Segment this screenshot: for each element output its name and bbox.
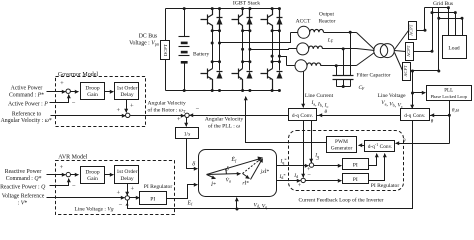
voltage sensor ACPT 1 <box>409 22 417 40</box>
svg-text:LF: LF <box>327 38 334 44</box>
svg-text:−: − <box>315 157 319 164</box>
wire: grid bus line c <box>438 8 440 71</box>
svg-text:1/s: 1/s <box>184 131 191 137</box>
wire: leg 1 center column <box>212 31 214 69</box>
AVR model dashed box <box>56 161 175 215</box>
wire: sum to PI <box>130 197 140 199</box>
wire: phase 2 output tap <box>250 49 289 50</box>
svg-text:Droop: Droop <box>85 86 99 92</box>
svg-text:ACPT: ACPT <box>408 24 413 36</box>
wire: theta to dq inverse conv <box>396 143 450 145</box>
svg-text:Angular Velocity : ω*: Angular Velocity : ω* <box>1 118 52 124</box>
wire: omega ref to PLL comparison <box>130 115 185 117</box>
summing junction: Id error <box>301 178 305 182</box>
svg-text:ACPT: ACPT <box>406 45 411 57</box>
svg-text:−: − <box>72 100 76 107</box>
wire: P feedback <box>50 95 69 103</box>
svg-text:+: + <box>116 107 120 114</box>
node: lower collector junction leg 2 <box>243 61 250 63</box>
svg-text:Delay: Delay <box>120 176 134 182</box>
svg-text:Reactive Power: Reactive Power <box>5 169 42 175</box>
vector: jxI* <box>251 159 263 180</box>
block: PI (d axis) <box>343 174 369 184</box>
wire: grid bus line b <box>432 8 434 52</box>
svg-text:+: + <box>177 116 181 123</box>
wire: omega line from PLL to speed summing <box>191 115 450 117</box>
PLL block <box>427 86 472 101</box>
summing junction: Iq error <box>309 163 313 167</box>
node: lower collector junction leg 3 <box>273 61 280 63</box>
svg-text:−: − <box>307 172 311 179</box>
wire: Id* reference from phasor block <box>277 180 301 182</box>
wire: theta into left d-q conv <box>319 115 341 117</box>
diode: upper freewheel leg 3 <box>277 9 283 31</box>
svg-text:Line Voltage : Vg: Line Voltage : Vg <box>74 206 113 212</box>
inductor: output reactor phase 3 <box>307 63 321 66</box>
current transformer ACCT 1 <box>298 26 310 38</box>
transistor: upper IGBT leg 2 <box>232 9 243 31</box>
wire: Ef into phasor block <box>167 185 198 199</box>
wire: Id error to PI <box>306 180 342 182</box>
wire: droop to delay <box>105 91 114 93</box>
svg-text:+: + <box>60 164 64 171</box>
wire: upper midpoint connector leg 3 <box>273 30 280 32</box>
svg-text:Grid Bus: Grid Bus <box>433 1 453 7</box>
angle arc: delta <box>225 169 228 174</box>
voltage sensor ACPT 3 <box>403 63 411 81</box>
wire: DC bus positive rail <box>166 8 280 10</box>
svg-text:+: + <box>60 80 64 87</box>
svg-text:Reactor: Reactor <box>319 18 336 24</box>
svg-text:Current Feedback Loop of the I: Current Feedback Loop of the Inverter <box>298 196 383 203</box>
wire: sum to droop gain <box>71 91 79 93</box>
svg-text:ACPT: ACPT <box>403 65 408 77</box>
wire: phase 3 to grid bus <box>411 70 439 72</box>
summing junction: speed error <box>185 113 189 117</box>
wire: delta angle into phasor block <box>187 139 198 169</box>
wire: fan-in to transformer <box>357 33 375 66</box>
svg-text:+: + <box>298 182 302 189</box>
svg-text:d-q Conv.: d-q Conv. <box>292 113 313 119</box>
diode: upper freewheel leg 1 <box>217 9 223 31</box>
diode: upper freewheel leg 2 <box>247 9 253 31</box>
wire: grid bus line a <box>424 8 426 31</box>
svg-text:Voltage : Vpn: Voltage : Vpn <box>129 40 160 46</box>
block: 1st Order Delay (governor) <box>115 83 139 100</box>
svg-text:PI: PI <box>353 177 358 183</box>
block: Droop Gain (AVR) <box>81 167 105 184</box>
svg-text:−: − <box>118 202 122 209</box>
wire: phase 1 to grid bus <box>417 30 425 32</box>
wire: tap to PLL <box>411 92 414 95</box>
wire: phase 3 to transformer <box>321 65 357 67</box>
svg-text:+: + <box>116 190 120 197</box>
svg-text:d-q Conv.: d-q Conv. <box>404 113 425 119</box>
wire: governor output down to speed ref sum <box>126 100 128 113</box>
vector: rI* <box>243 174 250 179</box>
wire: omega into summing junction <box>190 115 197 117</box>
wire: gate drive from PWM generator to stack <box>246 97 327 143</box>
svg-text:jxİ*: jxİ* <box>260 168 270 175</box>
wire: into ACCT 2 <box>289 48 297 50</box>
wire: phase 1 output tap <box>220 33 291 43</box>
block: 1/s integrator <box>176 128 199 139</box>
svg-text:IGBT Stack: IGBT Stack <box>233 1 260 7</box>
transistor: lower IGBT leg 3 <box>261 69 273 91</box>
node: battery - on rail <box>183 89 186 92</box>
svg-text:of the Rotor : ωT: of the Rotor : ωT <box>148 107 186 114</box>
svg-text:−: − <box>195 106 199 113</box>
wire: Iq from d-q conv <box>311 121 313 163</box>
wire: line current measurement tap <box>303 72 305 108</box>
vector: V <box>207 174 241 175</box>
block: 1st Order Delay (AVR) <box>115 166 139 184</box>
block: phasor diagram <box>199 150 277 197</box>
svg-text:Delay: Delay <box>120 92 134 98</box>
current transformer ACCT 3 <box>295 60 307 72</box>
svg-text:+: + <box>130 102 134 109</box>
svg-text:Command : Q*: Command : Q* <box>6 176 42 182</box>
svg-text:θ,ω: θ,ω <box>452 108 460 113</box>
svg-text:CF: CF <box>359 85 366 91</box>
svg-text:DCPT: DCPT <box>163 44 168 56</box>
wire: DC bus negative rail <box>166 90 280 92</box>
wire: into ACCT 3 <box>287 65 295 67</box>
wire: P* command into sum <box>47 91 66 93</box>
block: d-q conversion (voltage) <box>401 109 430 121</box>
wire: leg 3 center column <box>272 31 274 69</box>
svg-text:Generator: Generator <box>331 146 353 152</box>
wire: phase 2 to grid bus <box>414 51 433 53</box>
wire: theta into right d-q conv <box>431 115 441 117</box>
node: Vd Vq into phasor block <box>236 208 239 211</box>
inductor: output reactor phase 1 <box>310 29 324 32</box>
governor model dashed box <box>56 77 146 127</box>
svg-text:d-q-1 Conv.: d-q-1 Conv. <box>368 142 393 150</box>
block: PWM Generator <box>327 137 357 153</box>
voltage sensor ACPT 2 <box>406 43 414 61</box>
current transformer ACCT 2 <box>297 43 309 55</box>
wire: capacitor common bus <box>337 86 351 88</box>
wire: omega ref line <box>51 115 126 117</box>
battery <box>184 9 186 37</box>
svg-text:−: − <box>72 182 76 189</box>
load <box>443 36 467 59</box>
wire: phase 3 output tap <box>280 57 287 66</box>
wire: droop to delay (AVR) <box>105 174 114 176</box>
svg-text:PWM: PWM <box>335 139 348 145</box>
wire: Vd Vq feedback line <box>128 121 413 209</box>
wire: cap 3 stub <box>336 66 338 76</box>
node: lower collector junction leg 1 <box>213 61 220 63</box>
svg-text:ACCT: ACCT <box>296 19 311 25</box>
wire: PI d output up to dq inverse <box>369 154 385 181</box>
wire: leg 3 diode column <box>279 31 281 71</box>
wire: AVR chain down to voltage sum <box>127 184 129 196</box>
block: d-q conversion (current) <box>289 109 317 121</box>
wire: leg 2 diode column <box>249 31 251 71</box>
svg-text:Load: Load <box>448 46 460 52</box>
construction line (dashed) <box>243 158 263 174</box>
svg-text:Command : P*: Command : P* <box>9 92 44 98</box>
svg-text:1st Order: 1st Order <box>117 169 138 175</box>
svg-text:Angular Velocity: Angular Velocity <box>205 117 243 123</box>
summing junction: AVR power error <box>66 172 70 176</box>
svg-text:+: + <box>130 186 134 193</box>
inductor: output reactor phase 2 <box>309 46 323 49</box>
svg-text:δ: δ <box>192 161 195 168</box>
svg-text:PI Regulator: PI Regulator <box>371 183 400 189</box>
svg-text:δ: δ <box>226 167 229 173</box>
svg-text:+: + <box>307 166 311 173</box>
transistor: lower IGBT leg 2 <box>232 69 243 91</box>
wire: fan-out from transformer <box>395 31 409 71</box>
svg-text:Output: Output <box>319 11 334 17</box>
svg-text:1st Order: 1st Order <box>117 85 138 91</box>
svg-text:DC Bus: DC Bus <box>139 33 158 39</box>
svg-text:Angular Velocity: Angular Velocity <box>148 101 186 107</box>
svg-text:Line Current: Line Current <box>305 93 334 99</box>
svg-text:Line Voltage: Line Voltage <box>378 93 407 99</box>
svg-text:Gain: Gain <box>87 92 98 98</box>
diode: lower freewheel leg 1 <box>217 71 223 73</box>
summing junction: voltage error <box>125 196 129 200</box>
wire: into ACCT 1 <box>291 32 298 34</box>
wire: phase 1 to transformer <box>324 32 357 34</box>
svg-text:AVR Model: AVR Model <box>58 155 87 161</box>
wire: leg 2 center column <box>242 31 244 69</box>
transistor: upper IGBT leg 1 <box>201 9 213 31</box>
block: d-q inverse conversion <box>365 141 395 152</box>
svg-text:: V*: : V* <box>18 200 28 206</box>
wire: DC bus left leg <box>165 9 167 91</box>
svg-text:PI Regulator: PI Regulator <box>144 184 173 190</box>
block: PI (AVR) <box>140 192 167 205</box>
wire: Iq* reference from phasor block <box>277 165 309 167</box>
node: voltage tap <box>411 70 414 73</box>
wire: dq inverse to PWM <box>359 145 365 147</box>
vector: I* <box>207 175 216 179</box>
svg-text:Active Power: Active Power <box>11 85 43 91</box>
svg-text:PI: PI <box>150 196 155 202</box>
wire: Id from d-q conv <box>303 121 305 178</box>
wire: PLL theta/omega output column <box>449 101 451 144</box>
node: battery + on rail <box>183 7 186 10</box>
wire: Iq error to PI <box>314 165 342 167</box>
block: PI (q axis) <box>343 159 369 170</box>
transformer <box>374 44 388 58</box>
svg-text:İ*: İ* <box>210 181 216 188</box>
dashed box: inverter current loop <box>289 131 404 191</box>
svg-text:Voltage Reference: Voltage Reference <box>2 192 45 199</box>
svg-text:Battery: Battery <box>193 51 209 57</box>
wire: upper midpoint connector leg 2 <box>243 30 250 32</box>
svg-text:of the PLL : ω: of the PLL : ω <box>208 122 240 129</box>
wire: speed error to integrator <box>186 118 188 127</box>
wire: phase 2 to transformer <box>323 48 357 50</box>
svg-text:Active Power : P: Active Power : P <box>8 102 48 108</box>
voltage sensor DCPT <box>161 41 170 60</box>
svg-text:Reference to: Reference to <box>12 110 42 117</box>
wire: Q* into sum <box>47 174 66 176</box>
svg-text:Filter Capacitor: Filter Capacitor <box>357 72 391 78</box>
transistor: lower IGBT leg 1 <box>201 69 213 91</box>
svg-text:rİ*: rİ* <box>242 180 249 187</box>
wire: cap 1 stub <box>350 33 352 76</box>
svg-text:Phase Locked Loop: Phase Locked Loop <box>430 94 467 99</box>
transistor: upper IGBT leg 3 <box>261 9 273 31</box>
wire: sum to droop gain (AVR) <box>71 174 79 176</box>
block: Droop Gain (governor) <box>81 83 105 100</box>
summing junction: speed reference <box>126 113 130 117</box>
wire: V* reference line <box>47 197 125 199</box>
wire: Q feedback <box>50 179 69 186</box>
svg-text:Gain: Gain <box>87 176 98 182</box>
svg-text:Ef: Ef <box>187 200 194 206</box>
vector: Ef <box>207 159 261 175</box>
summing junction: governor power error <box>66 89 70 93</box>
diode: lower freewheel leg 3 <box>277 71 283 73</box>
svg-text:PI: PI <box>353 162 358 168</box>
wire: load feeders <box>425 8 463 37</box>
wire: cap 2 stub <box>343 49 345 76</box>
wire: leg 1 diode column <box>219 31 221 71</box>
node: capacitor common <box>342 85 345 88</box>
wire: upper midpoint connector leg 1 <box>213 30 220 32</box>
svg-text:Droop: Droop <box>85 169 99 175</box>
svg-text:Reactive Power : Q: Reactive Power : Q <box>0 184 46 190</box>
diode: lower freewheel leg 2 <box>247 71 253 73</box>
wire: PI q output up to dq inverse <box>369 154 377 166</box>
